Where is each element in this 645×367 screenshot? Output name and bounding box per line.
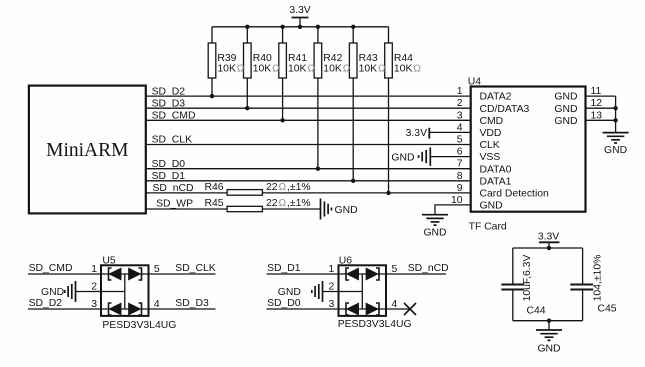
wire U4 pin 13 xyxy=(586,119,616,121)
node pin13-gnd xyxy=(613,118,617,122)
svg-text:GND: GND xyxy=(335,205,358,216)
wire U4 pin 11 xyxy=(586,95,616,97)
node bus-R43 xyxy=(351,25,355,29)
svg-text:TF Card: TF Card xyxy=(469,221,507,232)
svg-text:3.3V: 3.3V xyxy=(538,231,559,242)
resistor R42 xyxy=(317,27,319,43)
svg-text:MiniARM: MiniARM xyxy=(46,140,128,161)
svg-text:4: 4 xyxy=(154,299,160,310)
label U5 pin numbers xyxy=(91,264,160,310)
svg-text:10KΩ: 10KΩ xyxy=(394,64,422,75)
node R39-SD_D2 xyxy=(210,94,214,98)
label R40 xyxy=(253,53,281,75)
node bus-R41 xyxy=(280,25,284,29)
node bus-R40 xyxy=(245,25,249,29)
svg-text:GND: GND xyxy=(554,92,577,103)
node R44-SD_nCD xyxy=(386,191,390,195)
wire U6 center rail xyxy=(361,274,363,309)
svg-text:4: 4 xyxy=(392,299,398,310)
svg-text:SD_D2: SD_D2 xyxy=(152,86,186,97)
wire SD_WP net right of R45 to ground xyxy=(262,208,320,210)
svg-text:2: 2 xyxy=(457,98,463,109)
svg-text:SD_CLK: SD_CLK xyxy=(175,263,215,274)
label U4 pin numbers left xyxy=(451,86,463,206)
svg-text:CD/DATA3: CD/DATA3 xyxy=(480,104,530,115)
power 3.3V stub at U4 pin 4 xyxy=(428,128,430,139)
wire C45 bottom lead xyxy=(582,290,584,321)
label U4 right GND names xyxy=(554,92,577,127)
svg-text:3: 3 xyxy=(329,299,335,310)
wire cap ground stem xyxy=(548,321,550,330)
wire U5 pin 3 / pin 4 row xyxy=(28,308,216,310)
svg-text:5: 5 xyxy=(392,264,398,275)
node pin12-gnd xyxy=(613,106,617,110)
node R40-SD_D3 xyxy=(245,106,249,110)
svg-text:10KΩ: 10KΩ xyxy=(359,64,387,75)
node R43-SD_D1 xyxy=(351,179,355,183)
resistor R39 xyxy=(211,27,213,43)
ESD array U6 box xyxy=(339,265,387,316)
diode U5 D-top-left xyxy=(109,268,121,280)
svg-text:CMD: CMD xyxy=(480,116,504,127)
svg-text:4: 4 xyxy=(457,122,463,133)
ESD array U5 box xyxy=(101,265,149,316)
svg-text:U4: U4 xyxy=(468,77,482,88)
svg-text:SD_D0: SD_D0 xyxy=(152,159,186,170)
svg-text:SD_D0: SD_D0 xyxy=(267,298,301,309)
wire C44 top lead xyxy=(512,248,514,285)
svg-text:U6: U6 xyxy=(339,255,353,266)
svg-text:SD_D3: SD_D3 xyxy=(175,298,209,309)
svg-text:1: 1 xyxy=(329,264,335,275)
svg-text:GND: GND xyxy=(554,116,577,127)
ground sideways earth at end of SD_WP xyxy=(320,199,322,220)
no-connect X at U6 pin 4 xyxy=(404,303,416,315)
svg-text:SD_nCD: SD_nCD xyxy=(408,263,449,274)
node bus-3v3 xyxy=(298,25,302,29)
capacitor C44 xyxy=(501,284,524,286)
wire U5 pin 2 xyxy=(76,291,125,293)
diode U5 D-bottom-right xyxy=(129,303,142,315)
resistor R45 xyxy=(227,206,262,211)
svg-text:7: 7 xyxy=(457,159,463,170)
svg-text:SD_D1: SD_D1 xyxy=(152,171,186,182)
svg-text:DATA2: DATA2 xyxy=(480,92,512,103)
label R44 xyxy=(394,53,422,75)
svg-text:10: 10 xyxy=(451,195,463,206)
wire SD_D0 net xyxy=(146,168,471,170)
svg-text:3: 3 xyxy=(457,110,463,121)
resistor R43 xyxy=(352,27,354,43)
svg-text:R46: R46 xyxy=(205,182,224,193)
svg-text:8: 8 xyxy=(457,171,463,182)
label U4 pin names xyxy=(480,92,550,212)
svg-text:SD_D3: SD_D3 xyxy=(152,98,186,109)
svg-text:2: 2 xyxy=(329,282,335,293)
wire SD_D1 net xyxy=(146,180,471,182)
node R42-SD_D0 xyxy=(316,167,320,171)
svg-text:22Ω,±1%: 22Ω,±1% xyxy=(266,198,311,209)
svg-text:R45: R45 xyxy=(205,198,224,209)
svg-text:DATA0: DATA0 xyxy=(480,164,512,175)
label R42 xyxy=(323,53,351,75)
svg-text:1: 1 xyxy=(91,264,97,275)
ground sideways earth at U5 pin 2 xyxy=(75,281,77,302)
svg-text:3.3V: 3.3V xyxy=(406,128,427,139)
resistor R44 xyxy=(388,27,390,43)
svg-text:GND: GND xyxy=(554,104,577,115)
power 3.3V pull-up rail symbol xyxy=(292,17,309,19)
svg-text:104,±10%: 104,±10% xyxy=(593,255,604,302)
svg-text:C45: C45 xyxy=(598,304,617,315)
svg-text:SD_nCD: SD_nCD xyxy=(153,183,194,194)
ground earth below pin 10 xyxy=(422,214,448,216)
MiniARM U-block box xyxy=(29,86,146,214)
svg-text:Card Detection: Card Detection xyxy=(480,189,550,200)
wire U5 center rail xyxy=(124,274,126,309)
label U4 pin numbers right xyxy=(591,86,603,121)
diode U6 D-top-right xyxy=(366,268,379,280)
svg-text:R41: R41 xyxy=(288,53,307,64)
svg-text:13: 13 xyxy=(591,110,603,121)
wire U5 pin 1 / pin 5 row xyxy=(28,273,216,275)
svg-text:SD_D1: SD_D1 xyxy=(267,263,301,274)
svg-text:DATA1: DATA1 xyxy=(480,176,512,187)
resistor R41 xyxy=(282,27,284,43)
svg-text:R43: R43 xyxy=(359,53,378,64)
svg-text:GND: GND xyxy=(278,287,301,298)
svg-text:R44: R44 xyxy=(394,53,413,64)
label R41 xyxy=(288,53,316,75)
node cap-top xyxy=(547,246,551,250)
svg-text:3.3V: 3.3V xyxy=(289,5,310,16)
ground sideways earth at U4 pin 6 xyxy=(429,147,431,166)
wire pull-up bus xyxy=(212,26,389,28)
svg-text:SD_D2: SD_D2 xyxy=(29,298,63,309)
label U6 pin numbers xyxy=(329,264,398,310)
svg-text:GND: GND xyxy=(604,145,627,156)
wire U4 pin 12 xyxy=(586,107,616,109)
svg-text:6: 6 xyxy=(457,147,463,158)
svg-text:12: 12 xyxy=(591,98,603,109)
svg-text:PESD3V3L4UG: PESD3V3L4UG xyxy=(338,319,412,330)
svg-text:SD_CMD: SD_CMD xyxy=(152,111,196,122)
wire cap bottom rail xyxy=(513,320,583,322)
wire cap top rail xyxy=(513,247,583,249)
svg-text:GND: GND xyxy=(537,344,560,355)
ground earth below caps xyxy=(536,329,562,331)
wire C45 top lead xyxy=(582,248,584,285)
diode U6 D-top-left xyxy=(346,268,358,280)
svg-text:U5: U5 xyxy=(102,255,116,266)
svg-text:10KΩ: 10KΩ xyxy=(217,64,245,75)
wire U4 pin 10 to ground xyxy=(435,205,471,215)
svg-text:5: 5 xyxy=(457,135,463,146)
ground sideways earth at U6 pin 2 xyxy=(322,281,324,302)
svg-text:3: 3 xyxy=(91,299,97,310)
ground earth right of U4 xyxy=(603,132,629,134)
wire right ground collector xyxy=(615,96,617,133)
svg-text:GND: GND xyxy=(391,152,414,163)
diode U6 D-bottom-left xyxy=(346,303,358,315)
wire U6 pin 1 / pin 5 row xyxy=(267,273,447,275)
wire U6 pin 2 xyxy=(323,291,363,293)
svg-text:10KΩ: 10KΩ xyxy=(288,64,316,75)
wire SD_D3 net xyxy=(146,107,471,109)
svg-text:2: 2 xyxy=(91,282,97,293)
wire SD_nCD net right of R46 to pin 9 xyxy=(262,192,470,194)
label R43 xyxy=(359,53,387,75)
wire SD_nCD net left of R46 xyxy=(146,192,227,194)
diode U5 D-bottom-left xyxy=(109,303,121,315)
svg-text:PESD3V3L4UG: PESD3V3L4UG xyxy=(102,320,176,331)
svg-text:1: 1 xyxy=(457,86,463,97)
svg-text:C44: C44 xyxy=(527,306,546,317)
svg-text:11: 11 xyxy=(591,86,602,97)
svg-text:GND: GND xyxy=(423,227,446,238)
svg-text:10KΩ: 10KΩ xyxy=(323,64,351,75)
resistor R46 xyxy=(227,190,262,196)
svg-text:GND: GND xyxy=(480,201,503,212)
wire C44 bottom lead xyxy=(512,290,514,321)
node cap-bottom xyxy=(547,319,551,323)
wire U6 pin 3 / pin 4 row xyxy=(267,308,411,310)
svg-text:VDD: VDD xyxy=(480,128,502,139)
svg-text:R42: R42 xyxy=(323,53,342,64)
svg-text:SD_CMD: SD_CMD xyxy=(29,263,73,274)
node bus-R42 xyxy=(316,25,320,29)
label R39 xyxy=(217,53,245,75)
svg-text:VSS: VSS xyxy=(480,152,501,163)
wire SD_D2 net xyxy=(146,95,471,97)
svg-text:SD_CLK: SD_CLK xyxy=(152,135,192,146)
wire SD_CMD net xyxy=(146,119,471,121)
connector U4 TF Card box xyxy=(471,87,586,212)
diode U5 D-top-right xyxy=(129,268,142,280)
svg-text:5: 5 xyxy=(154,264,160,275)
svg-text:R40: R40 xyxy=(253,53,272,64)
svg-text:GND: GND xyxy=(41,287,64,298)
diode U6 D-bottom-right xyxy=(366,303,379,315)
power 3.3V rail above C44 C45 xyxy=(539,241,560,243)
svg-text:R39: R39 xyxy=(217,53,236,64)
capacitor C45 xyxy=(570,284,593,286)
wire SD_WP net left of R45 xyxy=(146,208,227,210)
svg-text:9: 9 xyxy=(457,183,463,194)
wire SD_CLK net xyxy=(146,144,471,146)
svg-text:10uF,6.3V: 10uF,6.3V xyxy=(522,255,533,302)
svg-text:CLK: CLK xyxy=(480,140,500,151)
node R41-SD_CMD xyxy=(280,118,284,122)
resistor R40 xyxy=(246,27,248,43)
svg-text:10KΩ: 10KΩ xyxy=(253,64,281,75)
svg-text:SD_WP: SD_WP xyxy=(156,198,193,209)
svg-text:22Ω,±1%: 22Ω,±1% xyxy=(266,182,311,193)
